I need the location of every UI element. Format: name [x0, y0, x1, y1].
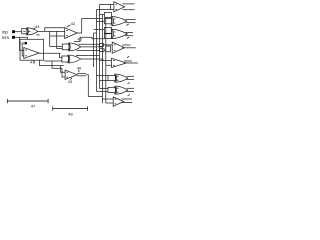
- svg-text:42: 42: [71, 21, 76, 26]
- svg-text:47: 47: [31, 104, 36, 109]
- svg-text:48: 48: [68, 111, 73, 116]
- svg-text:41: 41: [30, 60, 35, 65]
- svg-text:46: 46: [77, 65, 82, 70]
- svg-text:inp: inp: [2, 29, 8, 34]
- svg-text:45: 45: [77, 36, 82, 41]
- svg-text:clk: clk: [21, 41, 25, 45]
- svg-text:inm: inm: [2, 35, 9, 40]
- svg-text:44: 44: [35, 24, 40, 29]
- svg-text:43: 43: [68, 79, 73, 84]
